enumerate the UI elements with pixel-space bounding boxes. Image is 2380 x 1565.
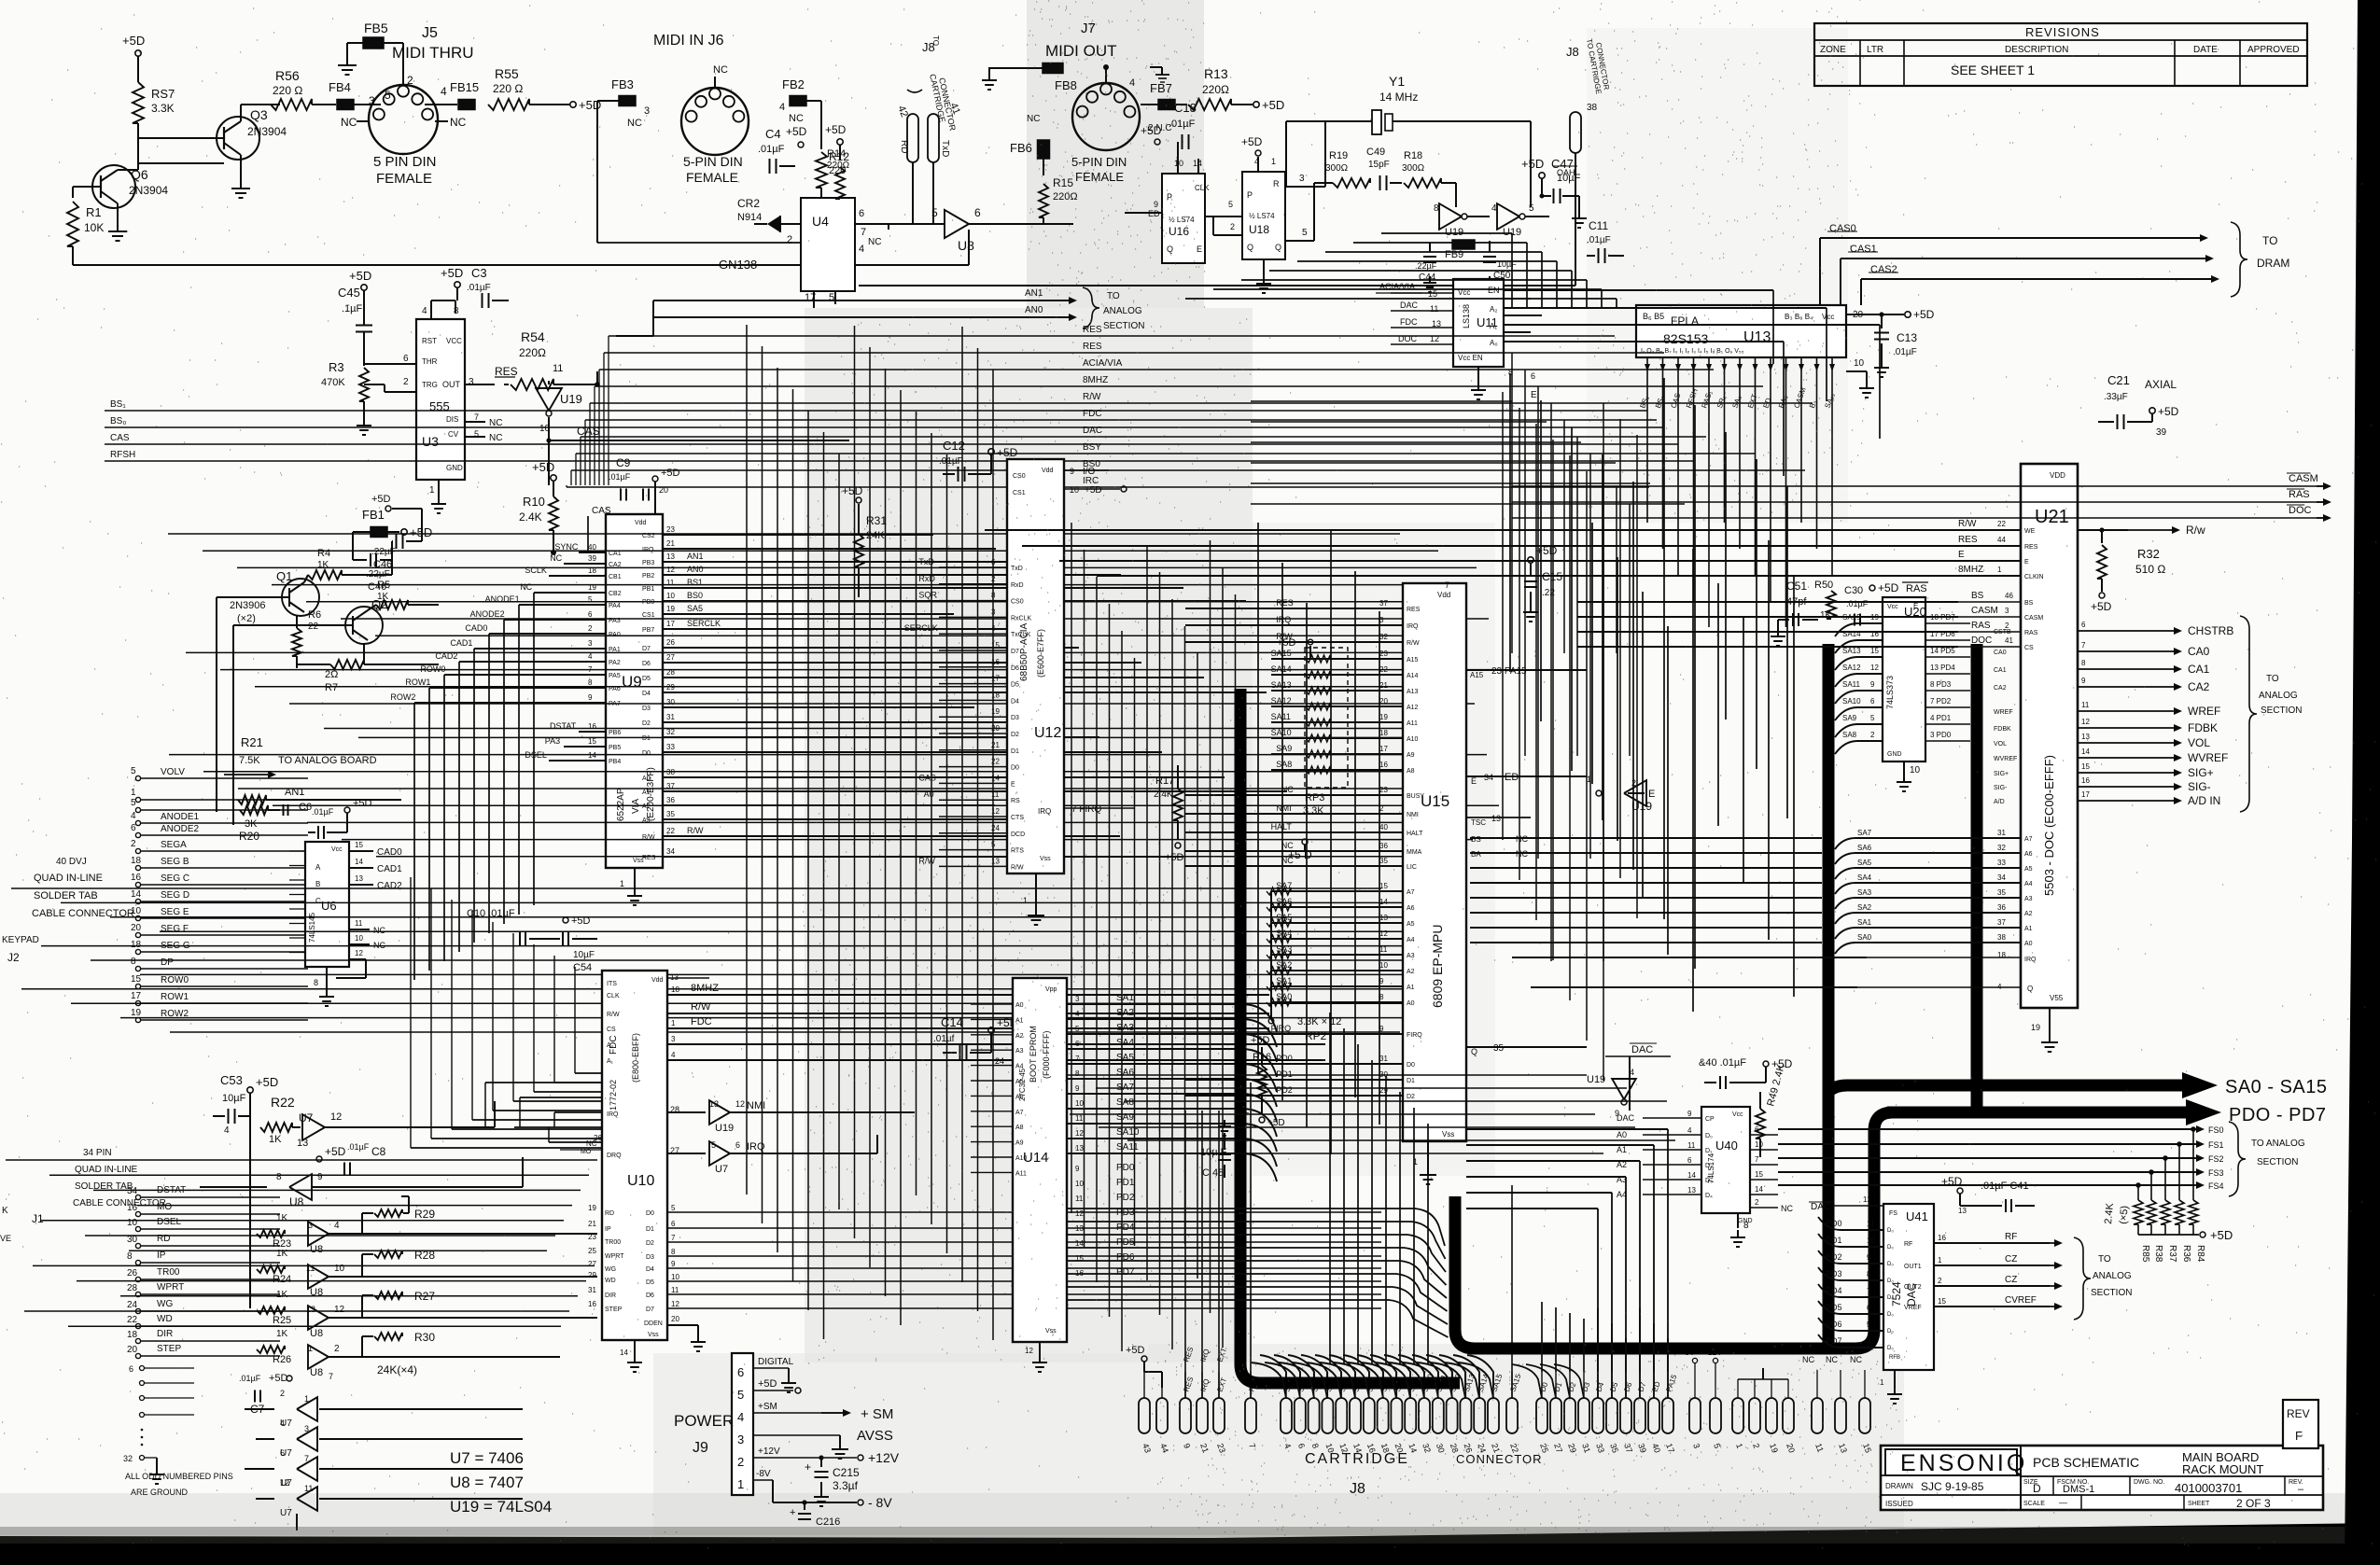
svg-text:Vcc: Vcc [1887,604,1898,610]
svg-text:44: 44 [1997,536,2006,544]
svg-text:N914: N914 [737,212,762,223]
svg-text:OUT: OUT [442,380,461,389]
svg-text:D0: D0 [646,1210,654,1217]
resistor R30 24K [362,1331,435,1376]
svg-text:PD2: PD2 [1826,1252,1842,1262]
svg-text:24K: 24K [866,530,885,541]
svg-text:17: 17 [2081,790,2090,799]
svg-text:A2: A2 [1015,1033,1024,1040]
svg-text:3: 3 [588,639,593,648]
svg-text:DOC: DOC [1971,636,1992,646]
svg-text:R6: R6 [308,609,321,621]
svg-text:.01µF: .01µF [312,807,334,817]
svg-text:U8: U8 [310,1328,323,1339]
svg-text:BS1: BS1 [687,578,703,587]
svg-text:8MHZ: 8MHZ [1958,565,1983,575]
svg-text:U21: U21 [2035,507,2069,527]
svg-text:26: 26 [127,1268,138,1279]
svg-text:39: 39 [588,554,596,563]
wire bus control signals (RES/ACIA/8MHZ/RW/FDC...) [567,325,1813,487]
svg-text:2: 2 [991,575,996,583]
svg-text:SEG B: SEG B [161,857,189,867]
svg-text:CLKIN: CLKIN [2024,574,2044,580]
svg-text:7 PD2: 7 PD2 [1930,697,1952,706]
svg-text:SCALE: SCALE [2023,1501,2045,1507]
svg-text:R/W: R/W [918,856,935,865]
note (IC part numbers) [450,1449,552,1516]
svg-text:R21: R21 [241,735,263,749]
svg-text:SA7: SA7 [1857,829,1872,837]
resistor R22 1K [260,1095,301,1145]
resistor R31 24K [842,484,887,597]
svg-text:IRQ: IRQ [1276,615,1291,624]
svg-text:R36: R36 [2181,1245,2191,1263]
svg-text:3 PD0: 3 PD0 [1930,731,1952,739]
svg-text:8: 8 [671,1248,676,1256]
svg-text:40: 40 [1379,823,1388,831]
svg-text:4: 4 [1867,1337,1871,1346]
svg-text:19: 19 [588,1204,596,1212]
svg-text:C9: C9 [616,456,631,469]
svg-text:SA5: SA5 [1857,859,1872,867]
wire DIGITAL (J9-6) [753,1357,796,1392]
svg-text:ARE GROUND: ARE GROUND [131,1488,189,1497]
IC U9 6522 VIA [390,514,1287,980]
svg-text:SEG D: SEG D [161,890,189,901]
svg-text:A1: A1 [1407,985,1415,991]
svg-text:NC: NC [520,582,532,592]
svg-text:SIG+: SIG+ [2188,766,2214,779]
svg-text:6: 6 [1870,697,1875,706]
svg-text:D₀: D₀ [1705,1133,1713,1139]
svg-text:220Ω: 220Ω [1053,191,1078,203]
svg-text:2: 2 [588,624,593,633]
svg-text:A15: A15 [1470,671,1484,679]
svg-text:STEP: STEP [157,1344,181,1354]
svg-text:J2: J2 [7,951,20,964]
svg-text:C21: C21 [2107,373,2130,387]
svg-text:WPRT: WPRT [605,1253,624,1260]
svg-text:6: 6 [131,823,136,833]
wire bus (staircase legs below U9) [411,1073,602,1148]
bus SA (thick) vertical from U14 [1240,689,1460,1383]
svg-text:(×2): (×2) [237,613,256,624]
svg-text:D7: D7 [642,646,651,652]
svg-text:A8: A8 [1015,1125,1024,1131]
svg-text:SQR: SQR [918,591,937,600]
svg-text:10: 10 [1755,1140,1763,1149]
inverter U19a [1434,203,1490,238]
svg-text:1K: 1K [269,1134,282,1145]
svg-text:OUT1: OUT1 [1904,1264,1922,1270]
svg-text:RP3: RP3 [1305,792,1324,803]
svg-text:TO: TO [2266,674,2279,684]
IC U21 5503 DOC [1835,464,2302,1052]
svg-text:3: 3 [991,608,996,616]
capacitor C47 10uF [1521,157,1587,228]
svg-text:A7: A7 [2024,836,2033,843]
svg-text:FS4: FS4 [2208,1181,2224,1191]
svg-text:32: 32 [1379,633,1388,641]
svg-text:I₇ O₇ B₆ B₇ I₀ I₁ I₂ I₃ I₄ I₅: I₇ O₇ B₆ B₇ I₀ I₁ I₂ I₃ I₄ I₅ I₆ B₁ O₉ V… [1641,348,1744,355]
svg-text:3.3K: 3.3K [151,102,175,115]
capacitor C15 .22uF [1523,544,1562,622]
svg-text:MIDI OUT: MIDI OUT [1045,42,1117,60]
svg-text:A12: A12 [1407,705,1419,711]
svg-text:10: 10 [355,934,363,943]
svg-text:20: 20 [127,1345,138,1355]
svg-text:SA1: SA1 [1116,993,1134,1003]
svg-text:14: 14 [991,774,1000,782]
svg-text:RxCLK: RxCLK [1011,615,1032,622]
svg-text:SA0: SA0 [1857,933,1872,942]
svg-text:3.3µf: 3.3µf [833,1479,859,1492]
svg-text:SA2: SA2 [1857,903,1872,912]
buffer U8f + resistor R26 [257,1329,560,1381]
svg-text:5-PIN DIN: 5-PIN DIN [683,154,743,169]
svg-text:R4: R4 [317,548,330,559]
svg-text:CA2: CA2 [2188,680,2210,693]
svg-text:RD: RD [157,1234,170,1244]
svg-text:D₀: D₀ [1887,1245,1894,1251]
svg-text:U13: U13 [1743,329,1771,345]
svg-text:A/D IN: A/D IN [2188,794,2220,807]
svg-text:R28: R28 [414,1249,435,1262]
svg-text:7: 7 [1445,580,1449,590]
svg-text:21: 21 [991,741,1000,749]
svg-text:CHSTRB: CHSTRB [2188,624,2233,637]
svg-text:9: 9 [1154,200,1158,209]
svg-text:15: 15 [131,974,142,985]
svg-text:WE: WE [2024,528,2036,535]
svg-text:220Ω: 220Ω [519,346,546,359]
IC U14 boot EPROM 27C32 [971,978,1241,1372]
svg-text:6: 6 [974,206,981,219]
svg-text:R/W: R/W [1958,519,1977,529]
svg-text:WVREF: WVREF [2188,751,2228,764]
svg-text:CS: CS [607,1027,616,1033]
svg-text:DRAWN: DRAWN [1885,1482,1913,1490]
svg-text:11: 11 [1430,304,1438,314]
wire bus (U11 outputs rightward) [1504,290,1880,476]
svg-text:Vcc: Vcc [331,846,343,853]
inverter U19d (NMI) [667,1099,915,1134]
svg-text:DP: DP [161,957,174,968]
svg-text:11: 11 [1075,1195,1084,1203]
svg-text:C6: C6 [299,802,312,813]
svg-text:17: 17 [666,620,675,628]
resistor R13 220 [1188,66,1284,112]
svg-text:13: 13 [666,552,675,561]
svg-text:U14: U14 [1023,1150,1049,1166]
IC U3 555 timer [364,300,502,496]
svg-text:12: 12 [355,949,363,957]
svg-text:CASM: CASM [1971,606,1998,616]
svg-text:A₁: A₁ [607,1058,614,1065]
svg-text:RxD: RxD [918,574,935,583]
svg-text:J8: J8 [1350,1481,1365,1497]
wire bus (U21 left control rows long) [1512,602,1958,987]
svg-text:BS0: BS0 [687,591,703,600]
svg-text:8: 8 [276,1172,282,1182]
svg-text:Q: Q [1471,1047,1477,1056]
svg-text:4: 4 [859,244,864,255]
wire (MIDI IN loop) [597,233,821,243]
svg-text:R/W: R/W [1011,864,1024,871]
svg-text:CA1: CA1 [2188,663,2210,676]
svg-text:U40: U40 [1715,1139,1738,1153]
svg-text:FB15: FB15 [450,80,479,94]
resistor R10 2.4K [519,440,611,555]
svg-text:PB7: PB7 [642,627,654,634]
capacitor C40 .01uF [1699,1057,1793,1089]
svg-text:3: 3 [1075,995,1080,1003]
svg-text:32: 32 [123,1454,133,1463]
ground (Q6 emitter) [108,203,127,241]
svg-text:Vcc: Vcc [1732,1111,1743,1118]
svg-text:A0: A0 [2024,941,2033,947]
svg-text:+5D: +5D [256,1075,278,1089]
svg-text:37: 37 [1997,918,2006,927]
svg-text:37: 37 [1379,599,1388,608]
svg-text:1: 1 [429,485,435,496]
svg-text:RAS: RAS [1971,621,1991,631]
svg-text:D1: D1 [642,735,651,742]
svg-text:D4: D4 [1011,698,1019,705]
svg-text:7: 7 [671,1234,676,1242]
diode CR2 1N914 [737,197,801,232]
svg-text:R56: R56 [275,68,300,83]
resistor R21 7.5K to analog board [224,735,377,778]
svg-text:.01µF: .01µF [758,144,785,155]
svg-text:FEMALE: FEMALE [376,171,432,187]
svg-text:+5D: +5D [1521,157,1544,171]
svg-text:CABLE CONNECTOR: CABLE CONNECTOR [73,1198,166,1209]
svg-text:510 Ω: 510 Ω [2135,563,2165,576]
svg-text:NC: NC [789,113,804,124]
svg-text:5503 - DOC (EC00-EFFF): 5503 - DOC (EC00-EFFF) [2042,755,2056,896]
svg-text:10: 10 [1854,358,1865,369]
svg-text:D6: D6 [642,661,651,667]
svg-text:8: 8 [588,678,593,687]
svg-text:3: 3 [737,1432,744,1446]
svg-text:VOL: VOL [1994,741,2007,748]
svg-text:+ SM: + SM [861,1406,893,1422]
svg-text:2N3904: 2N3904 [247,125,287,138]
svg-text:4: 4 [131,811,136,821]
svg-text:7: 7 [304,1454,309,1463]
svg-text:CARTRIDGE: CARTRIDGE [1305,1451,1409,1467]
note (odd pins grounded) [125,1472,233,1497]
capacitor C50 10pF [1483,241,1517,292]
svg-text:U18: U18 [1249,223,1269,236]
svg-text:11: 11 [304,1484,313,1493]
svg-text:RFB: RFB [1889,1355,1900,1361]
resistor array R85/R38/R37/R36/R84 2.4K x5 [2103,1129,2233,1263]
capacitor C216 [790,1502,840,1528]
svg-text:FB9: FB9 [1445,249,1463,260]
svg-text:3: 3 [644,105,650,117]
svg-text:A₂: A₂ [1490,305,1497,314]
svg-text:SA4: SA4 [1857,873,1872,882]
svg-text:C4: C4 [765,127,781,141]
svg-text:RES: RES [1276,598,1294,608]
svg-text:7: 7 [2081,641,2086,650]
svg-text:SA6: SA6 [1116,1068,1134,1078]
wire (Q1/Q2 couplings) [217,597,342,825]
svg-text:CAD2: CAD2 [377,881,402,891]
svg-text:NC: NC [489,433,502,443]
svg-text:½ LS74: ½ LS74 [1169,216,1195,224]
wire bus (right verticals toward U15/U21) [1512,353,1630,961]
svg-text:300Ω: 300Ω [1325,163,1349,174]
svg-text:U6: U6 [321,899,337,913]
svg-text:8: 8 [1075,1069,1080,1078]
svg-text:SA15: SA15 [1271,649,1292,658]
svg-text:SEG C: SEG C [161,873,189,884]
svg-text:12: 12 [1379,929,1388,938]
svg-text:A₀: A₀ [1490,339,1498,347]
svg-text:R30: R30 [414,1331,435,1344]
svg-text:470K: 470K [321,377,345,388]
IC U12 68B50 ACIA [904,459,1134,925]
svg-text:R54: R54 [521,329,545,344]
svg-text:PD5: PD5 [1826,1303,1842,1312]
svg-text:MIDI THRU: MIDI THRU [392,44,474,62]
svg-text:6: 6 [735,1140,740,1150]
connector J8 power pins [1682,1348,1873,1454]
resistor R15 220 [1039,176,1078,224]
svg-text:R18: R18 [1404,150,1422,161]
svg-text:APPROVED: APPROVED [2247,45,2300,55]
svg-text:13: 13 [1075,1144,1084,1153]
svg-text:C49: C49 [1366,147,1385,158]
svg-text:2: 2 [737,1455,744,1469]
svg-text:33: 33 [1997,859,2006,867]
svg-text:SA3: SA3 [1116,1023,1134,1033]
svg-text:ENSONIQ: ENSONIQ [1900,1450,2027,1476]
svg-text:D₄: D₄ [1705,1193,1713,1199]
svg-text:C18: C18 [1174,101,1197,115]
svg-text:FEMALE: FEMALE [1075,170,1124,184]
svg-text:13: 13 [1687,1186,1696,1195]
svg-text:A13: A13 [1407,689,1419,695]
svg-text:.22µF: .22µF [1415,261,1437,271]
svg-text:SA11: SA11 [1842,680,1861,689]
svg-text:14: 14 [1687,1171,1696,1180]
svg-text:19: 19 [666,605,675,613]
resistor R5 1K [368,580,439,610]
svg-text:Vss: Vss [1442,1130,1454,1139]
svg-text:CAD1: CAD1 [450,638,472,648]
svg-text:DSTAT: DSTAT [550,721,577,731]
svg-text:D₀: D₀ [1887,1228,1894,1234]
capacitor C18 .01uF [1141,101,1197,154]
svg-text:R19: R19 [1329,150,1348,161]
svg-text:Q: Q [1275,243,1281,252]
svg-text:R/W: R/W [691,1001,711,1013]
svg-text:31: 31 [1379,1055,1388,1063]
svg-text:BOOT EPROM: BOOT EPROM [1029,1026,1038,1083]
svg-text:Vcc EN: Vcc EN [1458,354,1483,362]
svg-text:U8: U8 [289,1195,304,1209]
svg-text:LTR: LTR [1867,45,1883,55]
svg-text:AVSS: AVSS [857,1428,893,1444]
svg-text:35: 35 [1379,857,1388,865]
wire bus (U15 bottom staircase to cartridge data pins) [1466,1129,1668,1372]
svg-text:VE: VE [0,1234,11,1243]
svg-text:+5D: +5D [349,269,371,283]
svg-text:SA10: SA10 [1271,728,1292,737]
wire bus (staircase into U13 inputs) [1185,233,1617,308]
svg-text:E: E [1011,781,1015,788]
svg-text:NC: NC [868,237,881,247]
svg-text:SA3: SA3 [1857,888,1872,897]
svg-text:74LS174: 74LS174 [1707,1153,1715,1183]
svg-text:EN: EN [1488,286,1500,295]
svg-text:C46: C46 [373,559,392,570]
wire bus (verticals between U9 and U12) [747,325,993,1340]
svg-text:74LS373: 74LS373 [1885,676,1895,709]
ferrite bead FB4 [329,80,391,110]
svg-text:A6: A6 [1407,905,1415,912]
wire CAS2 to DRAM [1861,264,2219,305]
svg-text:23: 23 [1379,786,1388,794]
svg-text:D7: D7 [1011,649,1019,655]
svg-text:CAS: CAS [110,433,130,443]
svg-text:SECTION: SECTION [2091,1288,2132,1298]
svg-text:22: 22 [127,1315,138,1325]
svg-text:RES: RES [495,365,518,378]
svg-text:13: 13 [297,1138,308,1149]
svg-text:CB1: CB1 [609,574,622,580]
svg-text:RD: RD [899,140,909,153]
svg-text:6: 6 [1755,1125,1759,1134]
svg-text:CS1: CS1 [642,612,655,619]
svg-text:ANODE1: ANODE1 [161,812,200,822]
svg-text:FS2: FS2 [2208,1154,2224,1164]
svg-text:7: 7 [861,227,866,238]
wire bus (drops to cartridge pins) [1182,1083,1512,1398]
resistor R50 1K [1814,580,1836,621]
svg-text:+5D: +5D [825,123,847,136]
svg-text:2: 2 [403,377,409,387]
svg-text:ISSUED: ISSUED [1885,1500,1913,1508]
svg-text:D4: D4 [646,1266,654,1273]
svg-text:A0: A0 [1015,1002,1024,1009]
svg-text:5: 5 [931,206,938,219]
wire CAS0 to DRAM [1820,223,2208,305]
svg-text:SEG F: SEG F [161,924,189,934]
svg-text:R/W: R/W [687,826,704,835]
svg-text:FB7: FB7 [1150,81,1172,95]
resistor pack RP3 3.3K (SA15-SA8 pullups) [1277,637,1348,817]
svg-text:DWG. NO.: DWG. NO. [2134,1479,2164,1486]
svg-text:TO: TO [1107,291,1120,301]
svg-text:12: 12 [330,1111,342,1123]
svg-text:15: 15 [355,841,363,849]
svg-text:R1: R1 [86,205,102,219]
svg-text:C45: C45 [338,286,360,300]
svg-text:SA4: SA4 [1116,1038,1134,1048]
svg-text:CS0: CS0 [1011,599,1024,606]
power +5D (555 area) [349,269,371,308]
svg-text:(×5): (×5) [2118,1205,2131,1224]
svg-text:D3: D3 [1011,715,1019,721]
svg-text:SOLDER TAB: SOLDER TAB [34,890,98,901]
connector J1 disk-drive stubs [0,1148,280,1359]
resistor R28 24K [362,1249,435,1277]
